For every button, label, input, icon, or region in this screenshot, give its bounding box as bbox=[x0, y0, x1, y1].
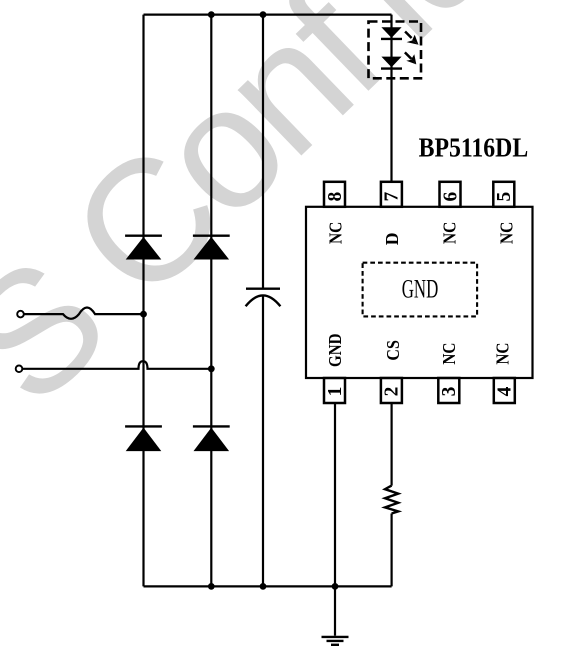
svg-text:4: 4 bbox=[495, 386, 516, 396]
svg-text:CS: CS bbox=[383, 340, 403, 361]
svg-text:NC: NC bbox=[497, 222, 517, 244]
svg-text:2: 2 bbox=[382, 387, 403, 397]
svg-text:NC: NC bbox=[493, 343, 513, 365]
svg-text:NC: NC bbox=[439, 343, 459, 365]
svg-text:NC: NC bbox=[440, 222, 460, 244]
svg-text:GND: GND bbox=[402, 275, 439, 304]
svg-text:D: D bbox=[382, 233, 402, 246]
svg-text:GND: GND bbox=[325, 334, 345, 368]
svg-text:1: 1 bbox=[325, 387, 346, 397]
svg-text:8: 8 bbox=[325, 191, 346, 201]
svg-text:7: 7 bbox=[382, 191, 403, 201]
svg-text:6: 6 bbox=[440, 191, 461, 201]
svg-text:NC: NC bbox=[326, 222, 346, 244]
svg-text:BP5116DL: BP5116DL bbox=[419, 133, 529, 163]
svg-text:5: 5 bbox=[494, 191, 515, 201]
svg-text:3: 3 bbox=[439, 386, 460, 396]
